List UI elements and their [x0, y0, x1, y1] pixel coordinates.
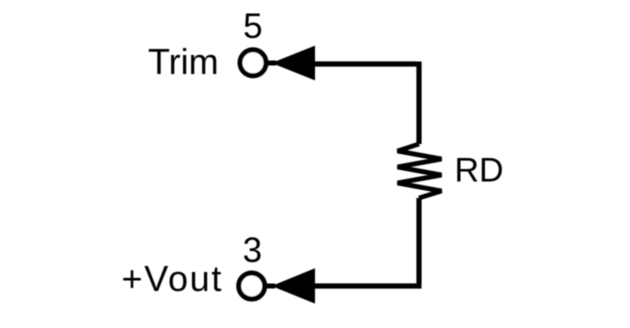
- wire from Trim arrow to resistor RD: [313, 62, 419, 145]
- resistor RD: [398, 144, 442, 198]
- svg-text:3: 3: [243, 231, 262, 270]
- svg-text:RD: RD: [455, 152, 504, 190]
- arrow into +Vout terminal: [272, 268, 316, 303]
- terminal circle Trim pin 5: [240, 50, 266, 76]
- terminal circle +Vout pin 3: [239, 273, 265, 299]
- svg-text:Trim: Trim: [148, 41, 219, 82]
- arrow into Trim terminal: [272, 46, 316, 81]
- wire from resistor RD to +Vout arrow: [313, 198, 422, 286]
- svg-text:+Vout: +Vout: [122, 258, 224, 299]
- svg-text:5: 5: [243, 7, 262, 46]
- wire stub +Vout: [264, 284, 275, 289]
- wire stub Trim: [266, 61, 276, 66]
